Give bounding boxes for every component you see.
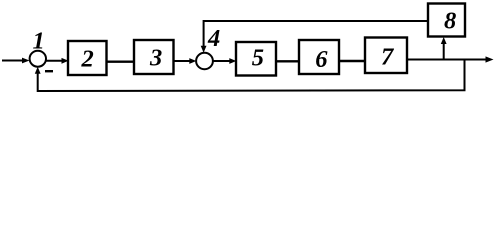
branch wire to block 8 [441,37,447,61]
output wire [407,56,494,62]
svg-text:4: 4 [207,25,220,52]
svg-text:1: 1 [33,28,45,55]
svg-text:8: 8 [444,7,456,34]
feedback wire output to junction1 [35,60,465,92]
feedback wire block8 to junction4 [201,21,428,53]
summing junction 1 [30,51,46,67]
block 5 [236,42,276,76]
block 6 [299,40,339,74]
minus sign [45,70,53,72]
svg-text:7: 7 [381,44,395,71]
wire block5 to block6 [276,60,299,62]
summing junction 4 [196,53,213,69]
svg-text:6: 6 [315,46,328,73]
block 2 [68,41,107,75]
block 7 [365,38,407,74]
svg-text:5: 5 [252,44,264,71]
wire junction4 to block5 [213,58,236,64]
block 3 [134,40,174,74]
wire block3 to junction4 [174,58,197,64]
svg-text:2: 2 [81,46,94,73]
block 8 [428,4,465,37]
wire junction1 to block2 [46,58,69,64]
wire block2 to block3 [107,61,135,63]
svg-text:3: 3 [149,45,162,72]
input arrow [2,58,30,64]
wire block6 to block7 [339,60,365,62]
